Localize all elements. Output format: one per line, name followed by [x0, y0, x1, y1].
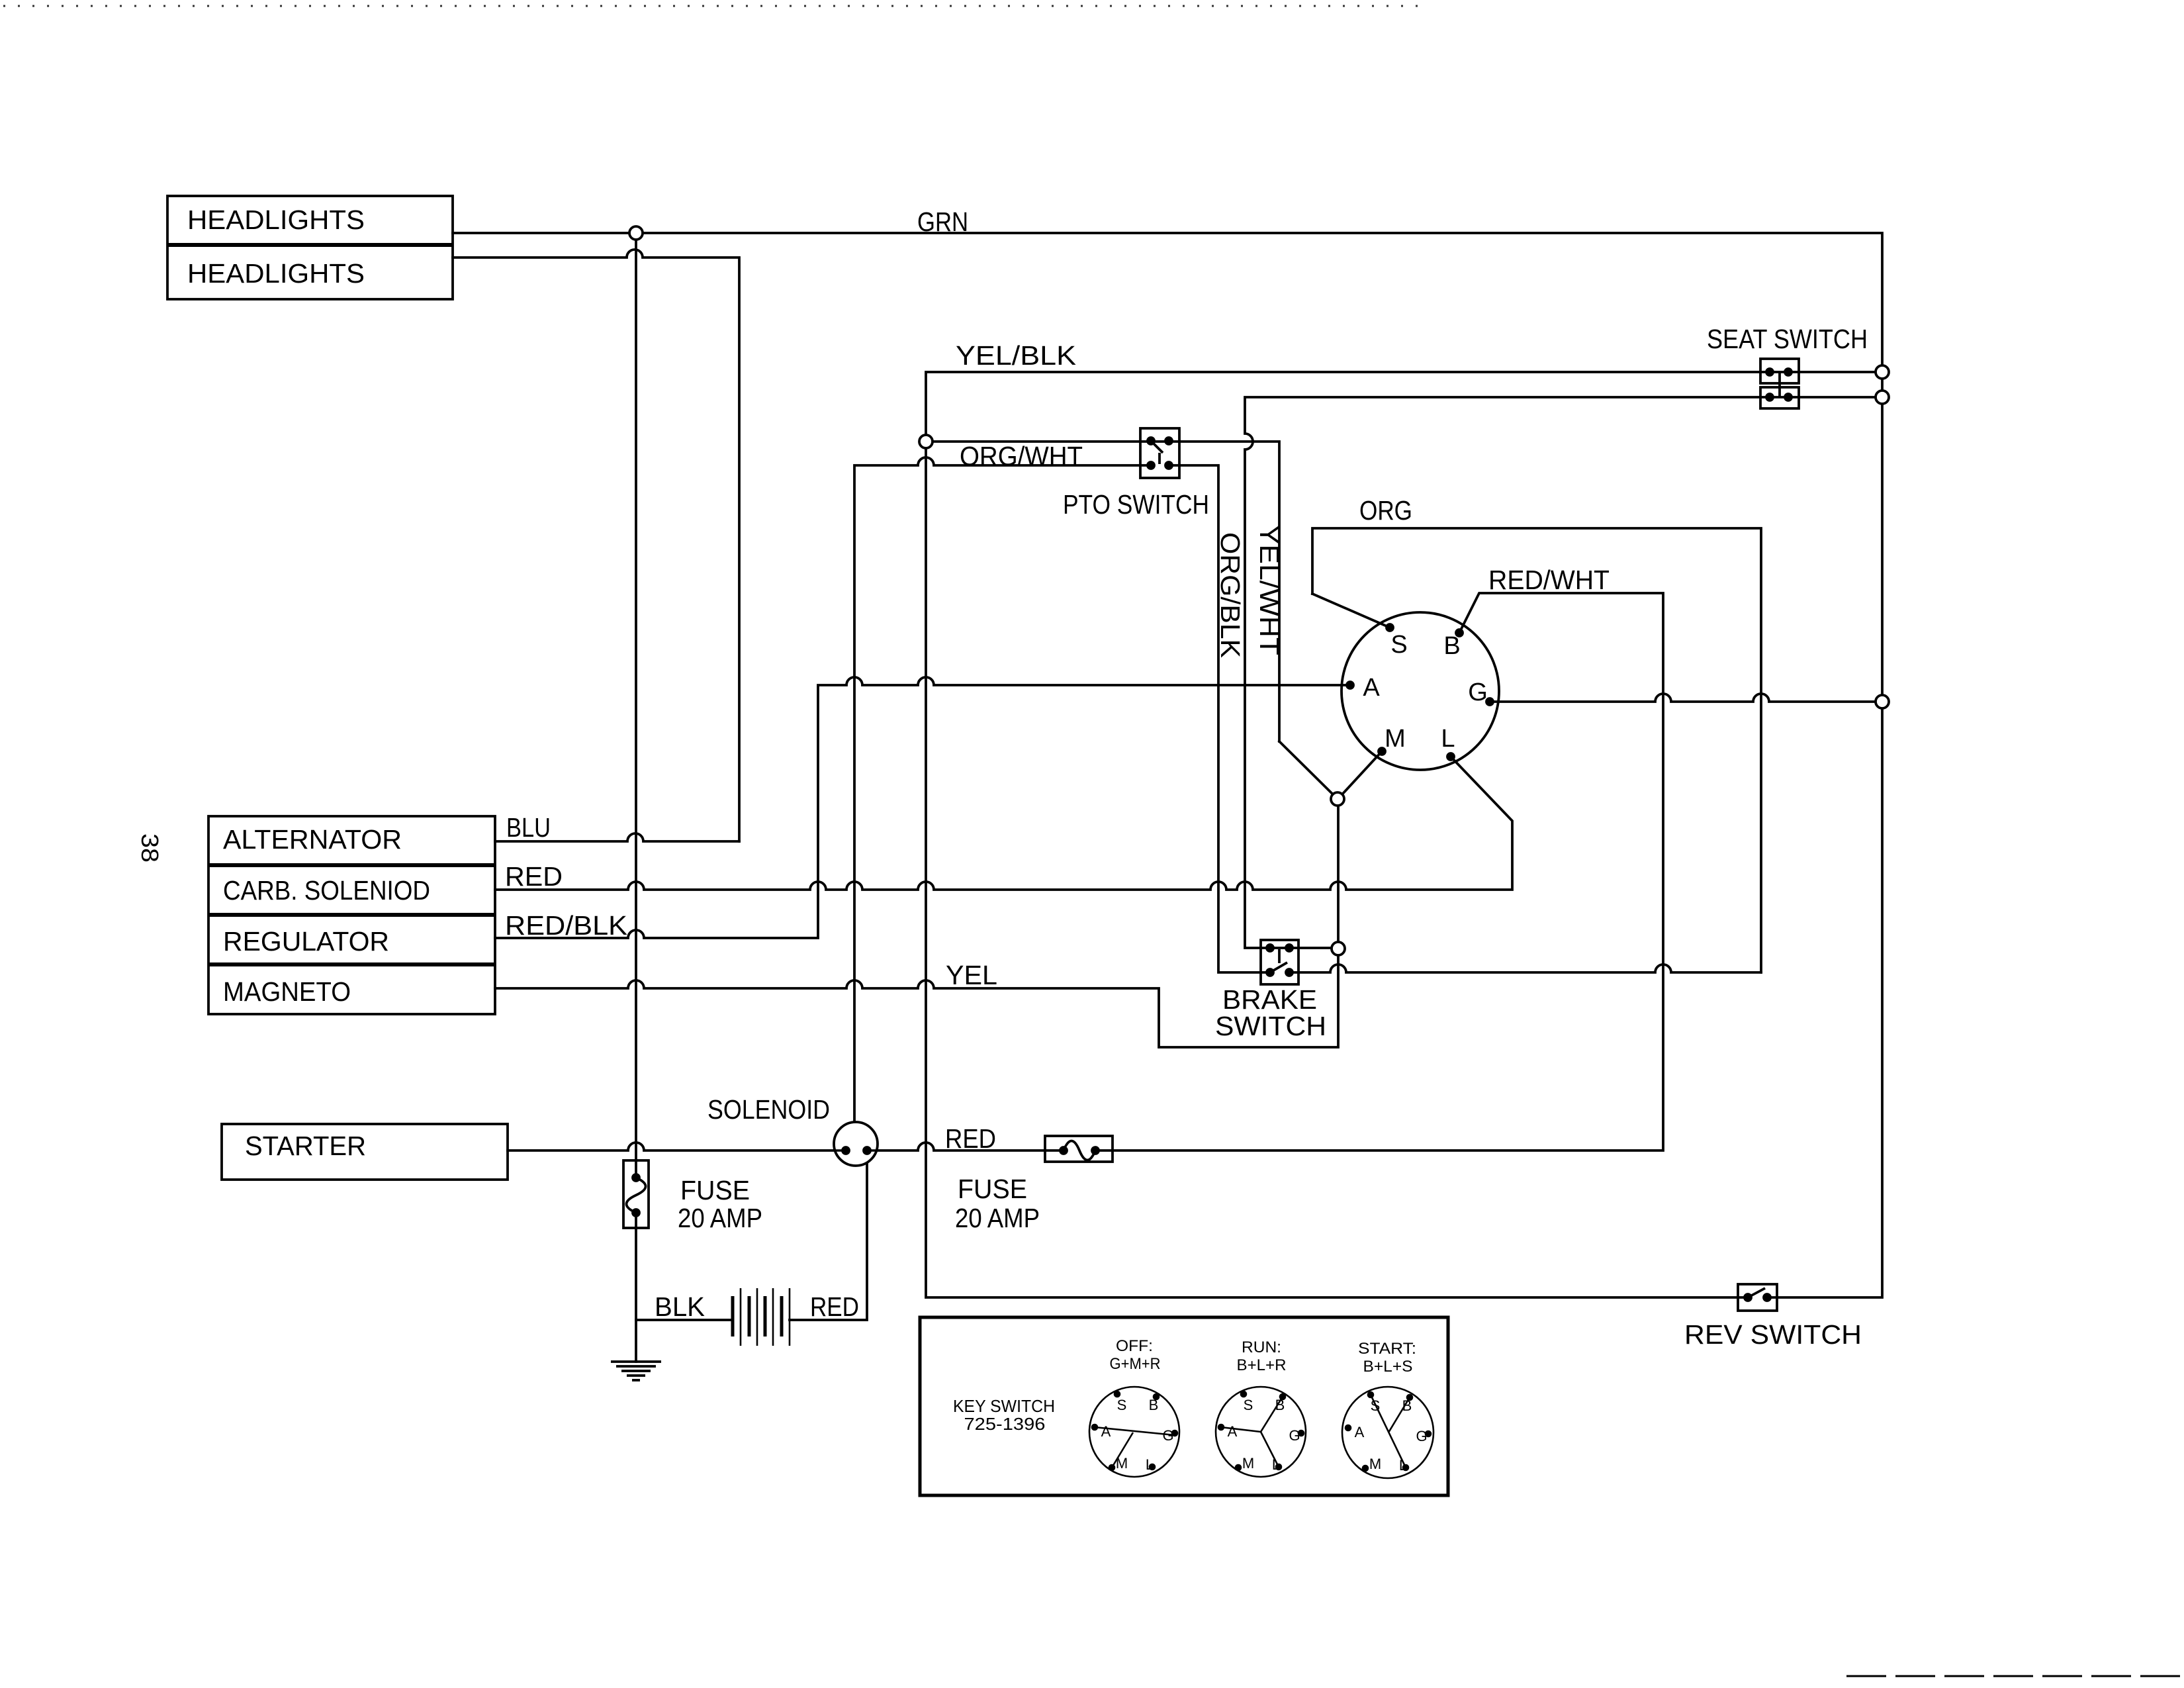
svg-text:B: B: [1275, 1397, 1285, 1413]
svg-text:RED/BLK: RED/BLK: [505, 910, 627, 941]
svg-text:REV SWITCH: REV SWITCH: [1684, 1319, 1862, 1350]
svg-text:RED: RED: [505, 861, 563, 892]
svg-text:RED: RED: [945, 1123, 996, 1154]
svg-text:G: G: [1468, 679, 1488, 706]
svg-text:FUSE: FUSE: [958, 1174, 1027, 1204]
svg-text:L: L: [1399, 1457, 1407, 1474]
wire RED carb. soleniod to L terminal riser: [495, 757, 1512, 890]
wire solenoid to fuse 2: [876, 1143, 1045, 1150]
svg-text:ALTERNATOR: ALTERNATOR: [223, 824, 402, 855]
svg-text:G: G: [1416, 1428, 1427, 1444]
svg-text:SEAT SWITCH: SEAT SWITCH: [1707, 324, 1868, 354]
wire rev switch left segment to org/wht riser: [926, 448, 1748, 1297]
starter connector box: [222, 1124, 508, 1180]
svg-text:A: A: [1355, 1424, 1365, 1440]
svg-text:HEADLIGHTS: HEADLIGHTS: [187, 258, 365, 289]
wire BLU alternator to riser x1117: [495, 833, 739, 841]
svg-text:725-1396: 725-1396: [964, 1414, 1046, 1434]
svg-text:S: S: [1244, 1397, 1253, 1413]
wire ORG/WHT: connector circle through PTO switch top, down riser x1933: [933, 442, 1279, 741]
svg-text:M: M: [1242, 1455, 1254, 1472]
svg-text:20 AMP: 20 AMP: [678, 1203, 762, 1233]
svg-text:KEY SWITCH: KEY SWITCH: [953, 1396, 1055, 1416]
connector circle org/wht node: [919, 435, 933, 448]
svg-text:M: M: [1116, 1455, 1128, 1472]
wire M junction diagonal to org/wht riser: [1279, 741, 1333, 794]
key switch legend box: [920, 1317, 1448, 1495]
wire ORG/BLK PTO bottom right down to brake switch bottom left: [1169, 465, 1270, 972]
svg-text:BLU: BLU: [506, 812, 551, 843]
wire G terminal to right-side vertical: [1494, 694, 1882, 702]
svg-text:L: L: [1272, 1456, 1280, 1473]
svg-text:SWITCH: SWITCH: [1215, 1011, 1326, 1041]
wire ORG diagonal to S terminal: [1312, 594, 1390, 628]
svg-text:S: S: [1117, 1397, 1127, 1413]
svg-text:RED: RED: [810, 1291, 859, 1322]
ground symbol: [611, 1362, 661, 1380]
svg-text:ORG: ORG: [1359, 495, 1412, 526]
solenoid circle: [834, 1122, 878, 1166]
svg-text:BLK: BLK: [655, 1291, 705, 1322]
wire headlights row 2 to riser x1117: [453, 250, 739, 841]
svg-text:RED/WHT: RED/WHT: [1488, 565, 1610, 595]
key switch circle with terminals: [1342, 612, 1499, 770]
svg-text:ORG/BLK: ORG/BLK: [1215, 532, 1246, 658]
legend START position circle: [1342, 1387, 1433, 1478]
connector circle G terminal right: [1876, 695, 1889, 708]
svg-text:L: L: [1146, 1456, 1154, 1473]
connector circle seat switch row1 right: [1876, 365, 1889, 379]
svg-text:START:: START:: [1358, 1340, 1416, 1358]
svg-text:RUN:: RUN:: [1242, 1338, 1281, 1356]
svg-text:GRN: GRN: [917, 207, 968, 237]
svg-text:B: B: [1443, 632, 1460, 660]
wire seat switch row 2 to corner and riser down to brake switch top: [1245, 397, 1882, 948]
wire RED/WHT: B terminal diagonal, over to riser x2513, down to fuse 2: [1113, 593, 1663, 1150]
svg-text:MAGNETO: MAGNETO: [223, 976, 351, 1007]
wire yel/blk: riser top corner to seat switch row 1: [926, 372, 1882, 435]
svg-text:A: A: [1228, 1423, 1238, 1440]
seat switch boxes: [1760, 359, 1799, 408]
svg-text:SOLENOID: SOLENOID: [707, 1094, 830, 1125]
rev switch box: [1738, 1284, 1777, 1311]
wire ORG: corner above S terminal to riser x2661 down to brake bottom wire: [1312, 528, 1761, 972]
svg-text:YEL/BLK: YEL/BLK: [956, 340, 1076, 371]
svg-text:REGULATOR: REGULATOR: [223, 926, 389, 957]
svg-text:M: M: [1385, 725, 1406, 753]
wire RED/BLK regulator riser to A terminal: [495, 677, 1350, 938]
junction circle at headlights GRN node: [629, 226, 643, 240]
battery: [733, 1288, 790, 1346]
svg-text:B: B: [1402, 1397, 1412, 1414]
wire M junction diagonal to M terminal: [1342, 751, 1382, 794]
svg-text:STARTER: STARTER: [245, 1131, 366, 1161]
wire YEL magneto to brake connector riser: [495, 955, 1338, 1047]
legend OFF position circle: [1089, 1387, 1179, 1477]
svg-text:B+L+S: B+L+S: [1363, 1358, 1413, 1376]
wire PTO bottom left to solenoid top riser: [854, 457, 1151, 1122]
svg-text:FUSE: FUSE: [680, 1175, 750, 1205]
connector circle seat switch row2 right: [1876, 391, 1889, 404]
fuse 1 (vertical, 20 amp): [623, 1160, 649, 1228]
svg-text:S: S: [1390, 631, 1407, 659]
alternator/carb/regulator/magneto connector box (four rows): [208, 816, 495, 1014]
svg-text:G: G: [1162, 1427, 1173, 1444]
svg-text:CARB. SOLENIOD: CARB. SOLENIOD: [223, 875, 430, 906]
svg-text:38: 38: [136, 833, 163, 863]
wire brake switch bottom right to ORG riser corner: [1289, 964, 1761, 972]
wire brake switch top row link: [1270, 947, 1289, 949]
brake switch box: [1261, 940, 1298, 984]
connector circle brake switch top node: [1332, 942, 1345, 955]
wire starter to solenoid: [508, 1143, 835, 1150]
svg-text:HEADLIGHTS: HEADLIGHTS: [187, 205, 365, 235]
wire GRN: headlights to right-side vertical down to rev switch: [453, 233, 1882, 1297]
svg-text:OFF:: OFF:: [1116, 1337, 1153, 1355]
svg-text:B+L+R: B+L+R: [1237, 1356, 1287, 1374]
scan artifact line bottom right: [1846, 1675, 2184, 1677]
svg-text:PTO SWITCH: PTO SWITCH: [1063, 489, 1209, 520]
legend RUN position circle: [1216, 1387, 1306, 1477]
wire brake switch top right to connector circle: [1289, 947, 1332, 949]
svg-text:G: G: [1289, 1427, 1300, 1444]
svg-text:M: M: [1369, 1456, 1381, 1472]
scan artifact dotted top edge: [3, 5, 1423, 7]
svg-text:A: A: [1363, 674, 1380, 702]
wire ground riser from GRN junction down to fuse 1: [635, 240, 637, 1160]
svg-text:A: A: [1101, 1423, 1111, 1440]
wire solenoid bottom to battery positive: [790, 1150, 867, 1320]
svg-text:YEL: YEL: [946, 960, 997, 990]
wire brake connector circle up to M junction circle: [1337, 806, 1340, 942]
svg-text:G+M+R: G+M+R: [1110, 1355, 1161, 1373]
fuse 2 (horizontal, 20 amp): [1045, 1136, 1113, 1162]
svg-text:S: S: [1371, 1397, 1381, 1414]
headlights connector box (two rows): [167, 196, 453, 299]
wire BLK battery negative to ground riser: [636, 1319, 733, 1321]
PTO switch box: [1140, 428, 1179, 478]
svg-text:YEL/WHT: YEL/WHT: [1254, 525, 1285, 655]
svg-text:B: B: [1149, 1397, 1159, 1413]
junction circle M terminal node: [1331, 792, 1344, 806]
svg-text:ORG/WHT: ORG/WHT: [960, 441, 1083, 471]
svg-text:L: L: [1441, 725, 1455, 753]
wire fuse 1 bottom to ground: [635, 1228, 637, 1362]
svg-text:20 AMP: 20 AMP: [955, 1203, 1040, 1233]
